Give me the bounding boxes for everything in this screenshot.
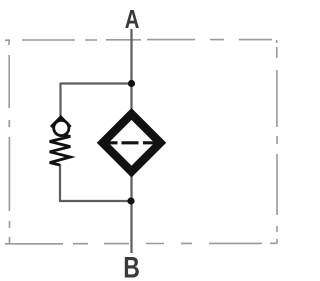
junction node 2 — [127, 197, 134, 204]
wire left branch lower vertical — [59, 164, 61, 202]
wire left branch upper vertical — [59, 83, 61, 119]
check valve V1 seat — [51, 117, 71, 127]
wire top branch horizontal — [61, 82, 132, 84]
enclosure dashed boundary bottom side — [8, 242, 277, 245]
check valve V1 ball — [54, 120, 69, 135]
junction node 1 — [128, 80, 135, 87]
wire bottom branch horizontal — [60, 200, 132, 202]
enclosure dashed boundary left side — [5, 40, 10, 244]
svg-text:B: B — [123, 251, 140, 281]
enclosure dashed boundary top side — [5, 39, 272, 42]
filter F1 dashed element line — [107, 141, 156, 144]
filter F1 diamond — [103, 114, 161, 172]
enclosure dashed boundary right side — [276, 40, 278, 244]
spring of check valve V1 — [50, 135, 71, 165]
wire node 2 to port B — [130, 176, 132, 253]
wire port A to node 1 — [130, 29, 132, 110]
